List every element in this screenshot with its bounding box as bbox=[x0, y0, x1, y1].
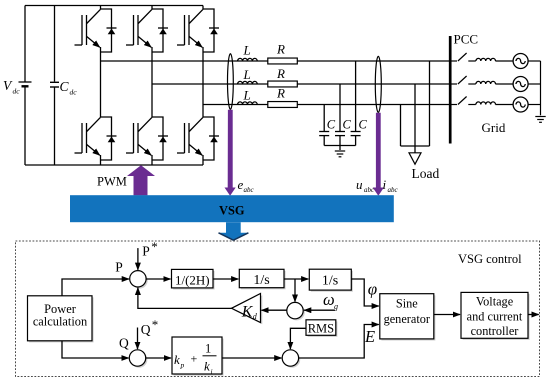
svg-text:abc: abc bbox=[364, 186, 375, 194]
svg-text:PWM: PWM bbox=[97, 174, 127, 188]
svg-text:VSG control: VSG control bbox=[458, 252, 522, 266]
svg-text:Load: Load bbox=[412, 166, 440, 181]
svg-text:RMS: RMS bbox=[308, 321, 334, 335]
svg-text:Sine: Sine bbox=[396, 297, 418, 311]
svg-text:k: k bbox=[204, 359, 210, 374]
svg-text:ω: ω bbox=[323, 290, 335, 309]
svg-text:L: L bbox=[243, 87, 251, 102]
svg-text:L: L bbox=[243, 67, 251, 82]
svg-text:abc: abc bbox=[244, 186, 255, 194]
svg-text:L: L bbox=[243, 43, 251, 58]
svg-text:k: k bbox=[174, 352, 180, 367]
svg-text:φ: φ bbox=[368, 279, 377, 298]
svg-text:1/s: 1/s bbox=[253, 273, 269, 288]
svg-text:*: * bbox=[151, 239, 158, 254]
svg-text:1/s: 1/s bbox=[322, 274, 338, 289]
svg-text:p: p bbox=[180, 361, 185, 370]
svg-text:R: R bbox=[276, 42, 285, 57]
svg-text:g: g bbox=[334, 302, 338, 311]
svg-text:Voltage: Voltage bbox=[476, 294, 514, 308]
svg-text:generator: generator bbox=[384, 312, 430, 326]
svg-text:Q: Q bbox=[119, 336, 129, 351]
svg-text:C: C bbox=[327, 118, 336, 132]
svg-text:*: * bbox=[152, 317, 159, 332]
svg-text:Q: Q bbox=[141, 322, 151, 337]
svg-text:C: C bbox=[359, 118, 368, 132]
svg-text:i: i bbox=[211, 367, 213, 376]
svg-text:calculation: calculation bbox=[33, 315, 87, 329]
svg-text:i: i bbox=[383, 177, 387, 192]
svg-text:u: u bbox=[356, 177, 363, 192]
svg-text:+: + bbox=[191, 352, 198, 366]
svg-text:1/(2H): 1/(2H) bbox=[175, 272, 210, 287]
svg-text:E: E bbox=[364, 327, 375, 346]
svg-text:R: R bbox=[276, 66, 285, 81]
svg-text:C: C bbox=[60, 79, 70, 94]
svg-text:dc: dc bbox=[13, 87, 21, 96]
svg-text:R: R bbox=[276, 85, 285, 100]
svg-text:controller: controller bbox=[471, 324, 519, 338]
svg-text:1: 1 bbox=[205, 342, 211, 356]
svg-text:PCC: PCC bbox=[454, 32, 479, 47]
svg-text:dc: dc bbox=[70, 88, 78, 97]
svg-text:VSG: VSG bbox=[219, 203, 245, 217]
svg-text:P: P bbox=[142, 243, 150, 258]
svg-text:abc: abc bbox=[388, 186, 399, 194]
svg-text:P: P bbox=[115, 260, 123, 275]
svg-text:and current: and current bbox=[467, 309, 523, 323]
svg-text:C: C bbox=[343, 118, 352, 132]
svg-text:Grid: Grid bbox=[482, 120, 506, 135]
